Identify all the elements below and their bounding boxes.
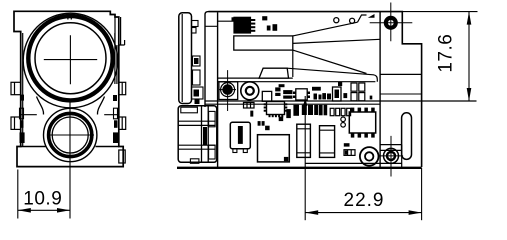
bracket bottom small rect — [190, 159, 199, 164]
left side clip details — [20, 95, 25, 143]
dimension 17.6 extension top — [402, 11, 477, 13]
bottom right dark bar P3 — [344, 143, 350, 146]
bottom dark cap B2 — [302, 105, 307, 115]
lens L1 outer bezel circle — [23, 13, 118, 108]
dimension 17.6 arrow bottom — [467, 88, 472, 101]
svg-text:22.9: 22.9 — [344, 190, 385, 211]
lens L2 crosshair horizontal — [48, 134, 94, 136]
bezel plate inner line — [181, 14, 183, 102]
screw S1 crosshair — [370, 3, 413, 42]
barrel fan line middle — [293, 39, 380, 43]
connector CN1 pins — [232, 17, 256, 32]
smd tiny dark R12 — [279, 84, 285, 87]
transistor Q1 dark tab — [335, 90, 340, 99]
centerline vertical through both lenses — [69, 35, 71, 218]
cover edge line — [218, 77, 293, 79]
barrel fan line lower (cover slant) — [293, 50, 367, 73]
relay footprint K1 — [244, 103, 255, 109]
screw S2 crosshair — [379, 136, 403, 177]
side body inner wall — [217, 12, 219, 167]
film cap C3 — [320, 126, 335, 158]
lower bracket frame — [178, 106, 217, 163]
smd chip R6 — [314, 94, 318, 100]
module M1 corner mark — [284, 157, 288, 161]
top rail line — [205, 25, 218, 27]
qfp ic U5 — [267, 102, 285, 115]
bottom dark B10 — [265, 126, 270, 131]
top smd dark D2 — [267, 26, 271, 31]
connector CN1 outline — [234, 17, 251, 33]
side body left wall — [204, 15, 206, 108]
washer W1 — [241, 82, 259, 100]
bracket rung band lower — [178, 145, 215, 149]
dimension 17.6 line — [468, 12, 470, 101]
transistor Q1 outline — [333, 87, 342, 101]
bottom dark cap B3 — [314, 105, 318, 115]
smd ic U4 pins — [293, 92, 310, 99]
capacitor C1 dark stripe — [238, 126, 243, 144]
board top line — [218, 81, 376, 83]
dimension 22.9 extension right — [421, 168, 423, 220]
film cap C2 — [297, 124, 311, 157]
screw box wall top right — [379, 12, 381, 168]
barrel fan line upper (rising) — [293, 22, 358, 36]
soic ic U2 — [349, 112, 375, 133]
pcb bar top — [205, 100, 477, 102]
screw S2 bottom right — [384, 148, 399, 163]
right ear tab lower — [119, 117, 126, 129]
dimension 10.9 arrow right — [57, 208, 70, 213]
dimension 22.9 arrow left — [305, 210, 318, 215]
lens L2 ring (thick) — [49, 113, 92, 156]
lens L2 outer circle — [43, 108, 96, 161]
side body top left corner — [205, 12, 209, 15]
pcb mount screw S3 crosshair — [220, 70, 237, 111]
left ear tab lower — [11, 117, 21, 129]
front housing inner left wall — [22, 33, 24, 146]
side body bottom edge — [177, 167, 422, 169]
bracket rung band upper — [178, 121, 215, 125]
right column line B — [380, 93, 422, 95]
lever dark wedge — [368, 14, 375, 18]
front housing inner right wall — [115, 33, 117, 84]
dimension 10.9 extension line left — [17, 170, 19, 219]
lens L2 inner circle — [52, 117, 88, 153]
housing waist curve right — [97, 97, 104, 115]
smd tiny dark R11 — [370, 96, 373, 100]
inductor figure-8 — [341, 117, 346, 122]
capacitor C1 legs — [233, 149, 237, 153]
pcb bar bottom — [205, 103, 380, 105]
hole H1 — [334, 18, 339, 23]
slot obround — [402, 113, 412, 160]
pcb mount screw S3 head — [222, 84, 233, 95]
bottom dark B8 — [258, 121, 261, 126]
dimension 17.6 arrow top — [467, 12, 472, 25]
housing base shoulder lines — [21, 146, 119, 148]
dimension 22.9 extension left — [304, 96, 306, 220]
bracket right column rect lower — [209, 145, 216, 159]
smd ic U4 — [296, 89, 307, 100]
module M1 big square — [258, 135, 290, 162]
bottom dark B9 — [262, 121, 265, 126]
right ear tab upper — [119, 82, 126, 94]
lens L1 inner ring — [35, 23, 106, 94]
lever pin at top — [358, 15, 367, 22]
laser barrel rectangle — [234, 36, 293, 50]
bottom dark B4 — [319, 105, 323, 116]
bezel plate clip rects — [192, 21, 204, 105]
bottom dark B7 — [250, 111, 253, 117]
screw S1 dark ring — [386, 18, 395, 27]
dimension 10.9 arrow left — [18, 208, 31, 213]
lens L1 ring notch marks — [68, 16, 71, 20]
qfp ic U5 pins — [264, 103, 288, 117]
smd chip pair R2 — [275, 93, 280, 96]
dimension 10.9 line — [18, 209, 70, 211]
svg-text:10.9: 10.9 — [23, 189, 62, 210]
bottom dark B11 — [279, 117, 284, 122]
top smd dark D1 — [262, 16, 267, 20]
bracket right column rect upper — [209, 111, 216, 126]
smd cap pair CP1 — [351, 83, 365, 101]
smd bar R3 — [283, 90, 292, 94]
lens L1 retaining ring (thick) — [28, 16, 112, 100]
smd chip pair R1 — [275, 87, 280, 91]
right side clip details — [113, 95, 118, 143]
svg-text:17.6: 17.6 — [436, 34, 457, 73]
smd bar R5 — [312, 87, 321, 91]
top smd dark D3 — [273, 24, 278, 31]
front view housing outline — [14, 11, 123, 166]
pcb mount screw S3 box — [219, 82, 238, 100]
washer W2 — [360, 147, 379, 166]
bracket inner verticals — [202, 106, 209, 163]
housing waist curve left — [37, 97, 44, 115]
smd chip R10 — [343, 93, 347, 98]
front housing top right tab lines — [110, 15, 124, 46]
side view bezel plate — [179, 13, 192, 104]
smd bar R4 — [283, 96, 292, 99]
right bottom tab — [119, 150, 125, 163]
hole H2 — [350, 18, 355, 23]
smd chip R7 — [319, 95, 322, 100]
bottom right footprint P1 — [344, 150, 355, 156]
lens L1 crosshair horizontal — [44, 59, 97, 61]
bracket top small rect — [181, 107, 198, 113]
bottom dark B5 — [324, 105, 328, 116]
soic U2 pins — [351, 108, 375, 138]
side body top edge — [209, 12, 422, 167]
left ear tab upper — [11, 82, 21, 94]
bracket mid column dark — [203, 127, 207, 145]
dimension 22.9 arrow right — [409, 210, 422, 215]
window bump trapezoid — [259, 68, 288, 78]
smd chip R9 — [327, 94, 331, 100]
connector wire — [218, 20, 234, 22]
smd chip R8 — [322, 93, 326, 99]
chassis step line — [305, 162, 402, 164]
bottom dark B6 — [286, 109, 291, 118]
electrolytic capacitor C1 — [230, 122, 250, 148]
connector CN1 body — [234, 17, 251, 33]
smd square U3 — [262, 91, 271, 101]
dimension 22.9 line — [305, 212, 421, 214]
right column line A — [380, 73, 422, 75]
small row caps CR1 — [330, 108, 350, 115]
screw S2 box — [380, 145, 402, 168]
screw S1 top right outer — [384, 16, 397, 29]
bottom dark cap B1 — [293, 105, 299, 116]
